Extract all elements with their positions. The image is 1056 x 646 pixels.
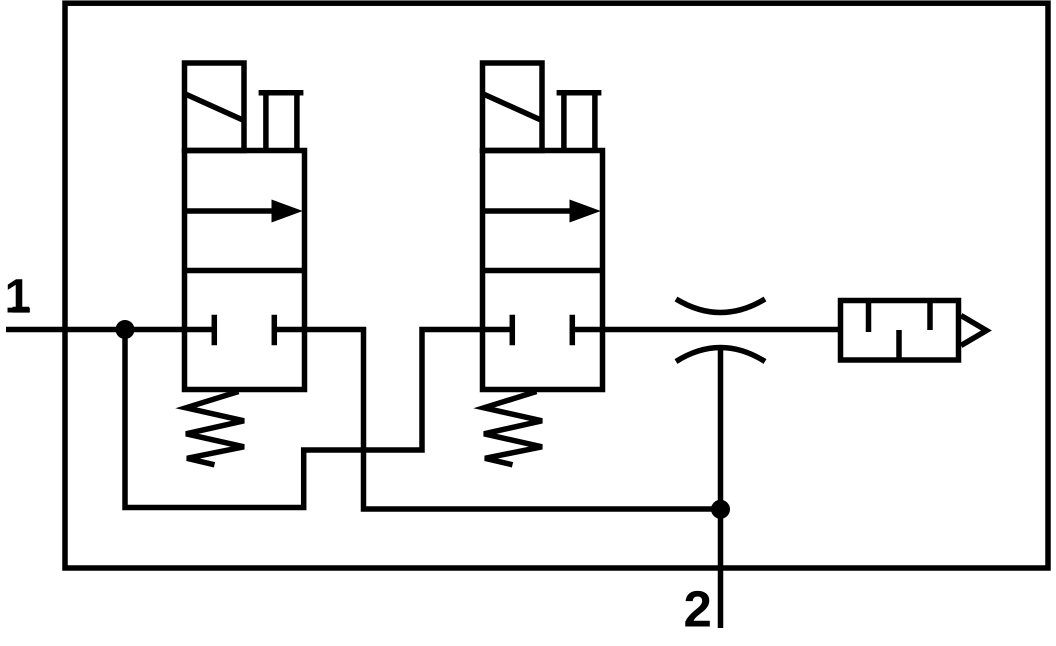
- solenoid coil Y1: [185, 63, 245, 151]
- port 1 line: [6, 327, 214, 333]
- wire node A to valve V2 inlet: [125, 330, 512, 508]
- node B junction dot: [711, 500, 730, 519]
- throttle restrictor lower arc: [676, 348, 765, 362]
- silencer U1 body: [841, 301, 959, 361]
- valve V1 body: [185, 151, 305, 390]
- manual override of valve V1: [259, 93, 304, 151]
- valve V2 body: [483, 151, 603, 390]
- wire valve V1 outlet to node B: [274, 330, 720, 510]
- throttle restrictor upper arc: [676, 299, 765, 313]
- svg-text:1: 1: [5, 270, 32, 323]
- valve V1 closed-position seats: [214, 315, 274, 345]
- solenoid coil Y2: [483, 63, 543, 151]
- silencer U1 outlet chevron: [961, 316, 987, 346]
- wire valve V2 outlet to silencer: [572, 327, 838, 333]
- valve V2 flow arrow (actuated position): [483, 200, 601, 223]
- port 2 line: [718, 348, 724, 629]
- svg-text:2: 2: [684, 581, 712, 638]
- manual override of valve V2: [557, 93, 602, 151]
- valve V2 closed-position seats: [512, 315, 572, 345]
- node A junction dot: [116, 320, 135, 339]
- port 1 label: [5, 270, 32, 323]
- return spring of valve V2: [484, 392, 542, 465]
- valve V1 flow arrow (actuated position): [185, 200, 303, 223]
- return spring of valve V1: [186, 392, 244, 465]
